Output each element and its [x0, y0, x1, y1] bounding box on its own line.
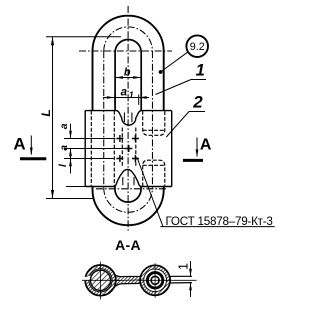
dim a a l vertical line: [70, 124, 72, 174]
hidden notch edge right: [135, 128, 137, 167]
section right bar tube wall: [147, 273, 163, 289]
section left ring slit: [79, 276, 92, 282]
outer contour top (solid): [93, 16, 164, 111]
hidden upper bar end chord: [143, 129, 165, 131]
weld row line 2: [64, 148, 126, 150]
main vertical centerline: [127, 6, 129, 232]
plate right edge: [171, 111, 173, 187]
weld row line 1: [64, 138, 116, 140]
hidden outer-left leg: [90, 111, 92, 187]
dim 1 line: [190, 261, 192, 276]
balloon 9.2 circle: [186, 35, 208, 57]
svg-text:1: 1: [176, 263, 190, 270]
svg-text:a: a: [59, 123, 70, 129]
hidden upper bar end right leg: [143, 111, 165, 136]
bottom arc horizontal centerline: [96, 188, 168, 190]
weld spot 2: [132, 135, 139, 142]
svg-text:2: 2: [192, 92, 203, 111]
svg-text:1: 1: [196, 62, 205, 80]
section arrow left: [30, 136, 32, 155]
a1 arrow right outside: [139, 96, 147, 99]
section left ring: [84, 264, 116, 296]
leader 1: [156, 80, 192, 95]
arrow up at row2: [69, 149, 72, 157]
svg-text:a: a: [59, 145, 70, 151]
svg-text:A: A: [13, 135, 25, 154]
weld spot 5: [132, 155, 139, 162]
bar middle dash-dot stadium centerline: [104, 27, 153, 212]
L arrow top: [51, 37, 54, 46]
weld row line 3: [64, 158, 114, 160]
gost leader: [137, 158, 163, 227]
b arrow right: [133, 76, 141, 79]
gost underline: [160, 226, 274, 228]
top arc horizontal centerline: [79, 50, 172, 52]
section plane trace left: [20, 157, 46, 160]
section left bar: [90, 270, 110, 290]
a1 dim line: [103, 97, 149, 99]
leader 2 shelf: [189, 111, 205, 113]
section right ring: [144, 269, 167, 292]
weld spot 3 center: [125, 145, 132, 152]
leader 2: [166, 112, 189, 138]
dim L extension bottom: [46, 198, 93, 200]
weld spot 4: [116, 155, 123, 162]
l extension line: [66, 186, 86, 188]
hidden inner-left leg: [113, 111, 115, 187]
svg-text:l: l: [58, 164, 69, 167]
hidden notch edge left: [121, 128, 123, 167]
b arrow left: [115, 76, 123, 79]
L arrow bottom: [51, 190, 54, 199]
balloon leader dot: [159, 70, 163, 74]
section strap band: [110, 273, 171, 290]
section right hole: [150, 276, 160, 286]
a1 arrow left outside: [107, 96, 115, 99]
dim L extension top: [46, 36, 121, 38]
hidden lower bar end chord: [143, 164, 165, 166]
balloon leader: [161, 52, 188, 72]
outer contour bottom (solid): [93, 187, 164, 226]
svg-text:1: 1: [129, 90, 134, 100]
plate item 2 left edge: [84, 111, 86, 187]
svg-text:A-A: A-A: [115, 237, 141, 253]
section plane trace right: [183, 159, 203, 162]
plate top edge with notch: [85, 111, 172, 126]
section left crosshair: [82, 279, 120, 281]
inner bottom bowl (solid): [115, 187, 141, 203]
svg-text:a: a: [121, 87, 128, 99]
hidden lower bar end right leg: [143, 160, 165, 186]
svg-text:ГОСТ 15878–79-Кт-3: ГОСТ 15878–79-Кт-3: [166, 215, 273, 228]
back layer bell edges seen through bell: [123, 177, 134, 185]
section arrow right: [196, 137, 198, 156]
dim b line: [115, 77, 141, 79]
svg-text:b: b: [124, 67, 131, 79]
back layer notch edges seen through notch: [124, 113, 131, 123]
arrow up at row3: [69, 159, 72, 167]
arrow down at row1: [69, 131, 72, 139]
section right crosshair: [138, 279, 197, 281]
svg-text:9.2: 9.2: [190, 41, 205, 53]
a1 extension tick left: [114, 94, 116, 105]
plate bottom edge with bell: [85, 169, 172, 186]
leader 1 shelf: [191, 79, 206, 81]
svg-text:L: L: [39, 109, 53, 116]
svg-text:A: A: [200, 136, 212, 153]
weld spot 1: [116, 135, 123, 142]
inner contour top (solid): [115, 39, 141, 110]
dim L line: [52, 37, 54, 199]
section strap middle line: [115, 279, 138, 282]
a1 extension tick right: [138, 94, 140, 105]
